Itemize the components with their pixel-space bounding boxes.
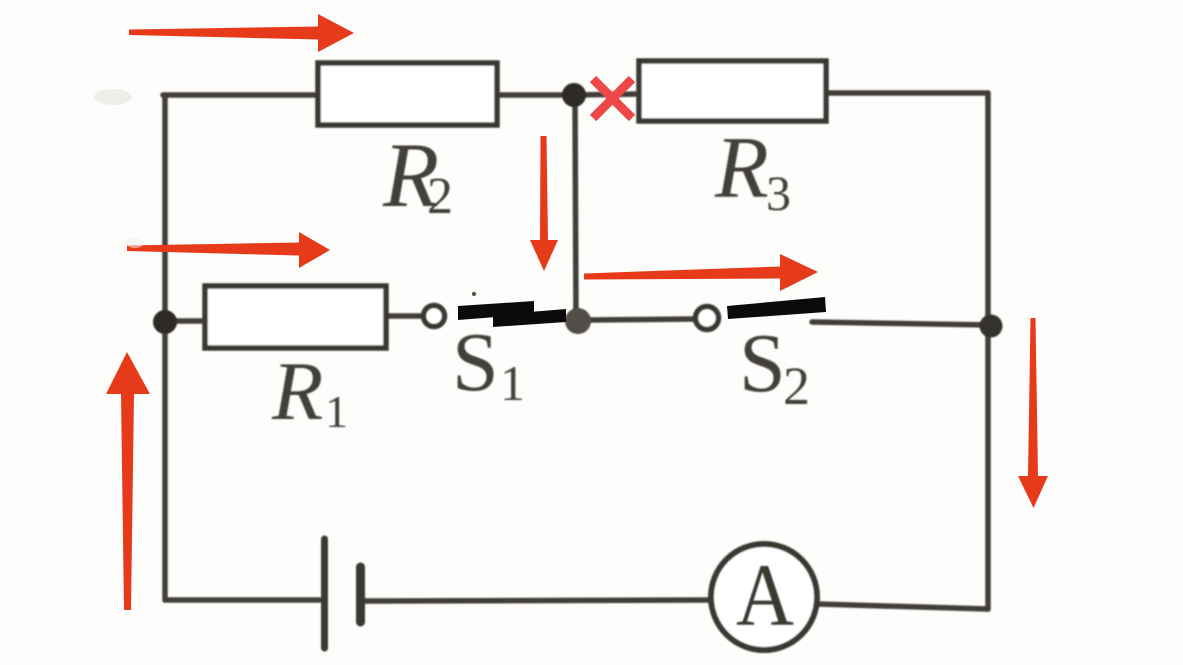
battery long plate [321,539,328,648]
label R1 [271,345,348,438]
svg-text:S: S [739,317,786,410]
switch S2 pivot circle [696,307,719,330]
svg-text:R: R [714,120,769,217]
black mark over S2 blade [727,297,826,319]
label R2 [382,124,453,226]
black mark over S1 blade (stroke 2) [493,309,566,327]
wire node A down to switch row [575,95,576,320]
svg-text:2: 2 [783,356,810,416]
red current arrow right of node B (toward S2) [584,254,818,291]
svg-text:1: 1 [500,355,525,411]
red current arrow up left side [106,352,150,610]
wire node A to R3 [574,94,639,95]
wire R1 to S1 [386,313,421,319]
red current arrow down through node A [530,136,558,271]
faint scan smudge left [126,238,144,248]
svg-text:2: 2 [427,168,453,225]
node B junction dot [565,308,591,334]
black mark over S1 blade (stroke 1) [458,301,534,320]
ammeter A1 circle [711,544,817,650]
red current arrow top (into R2 branch) [129,14,354,52]
node right junction dot [980,315,1003,338]
resistor R1 [205,286,386,348]
label S2 [739,317,810,416]
wire S2 blade to right node [812,322,990,325]
resistor R3 [639,61,826,121]
wire R3 to right vertical [826,90,988,96]
node A junction dot [562,83,586,107]
node left junction dot [153,310,177,334]
red current arrow middle left (into R1 branch) [127,232,330,268]
switch S1 pivot circle [424,306,445,327]
wire R2 to node A [497,92,574,98]
faint scan smudge top-left [94,89,132,105]
label R3 [714,120,791,221]
wire top left horizontal [163,92,318,98]
wire bottom left to battery [165,597,321,603]
resistor R2 [318,63,497,125]
wire ammeter to right vertical [818,604,988,609]
wire right vertical [985,93,991,609]
wire battery to ammeter [364,600,712,601]
wire left vertical [162,95,168,600]
battery short plate [356,567,365,622]
svg-text:3: 3 [766,165,791,221]
small tick above S1 blade [472,292,476,296]
label S1 [452,316,525,411]
svg-text:S: S [452,316,499,409]
red current arrow down right side [1018,318,1048,508]
svg-text:1: 1 [325,386,348,437]
wire left node to R1 [165,318,205,324]
svg-text:R: R [271,345,323,438]
red X fault mark on wire node A - R3 [593,79,632,118]
wire node B to S2 [589,319,694,320]
svg-text:A: A [736,547,794,645]
